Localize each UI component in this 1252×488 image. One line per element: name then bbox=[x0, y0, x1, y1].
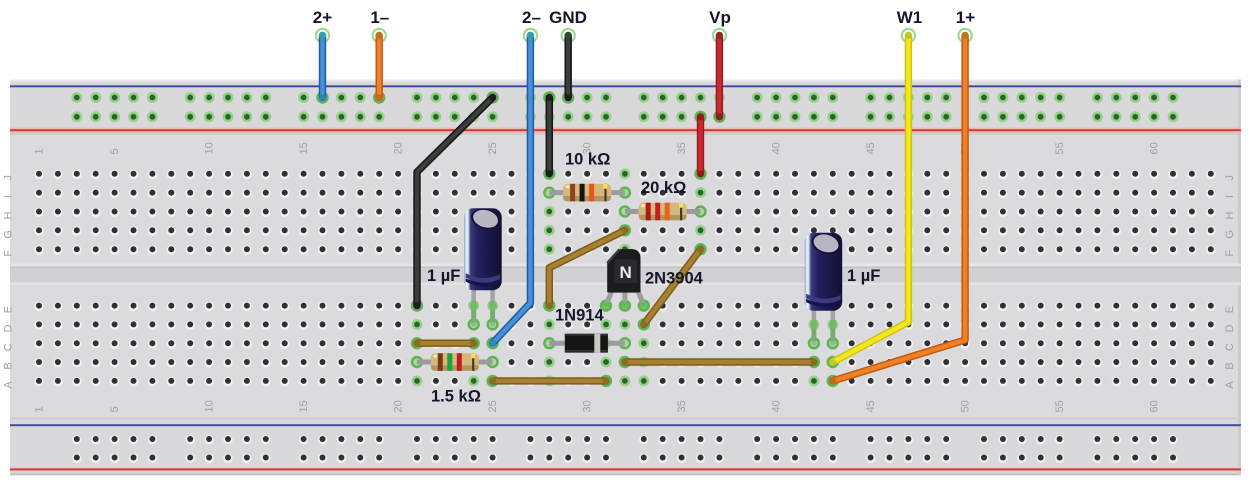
svg-text:5: 5 bbox=[109, 148, 121, 154]
jumper wire (GND rail to E21) bbox=[411, 91, 499, 311]
svg-text:20 kΩ: 20 kΩ bbox=[641, 179, 686, 197]
svg-text:E: E bbox=[1224, 306, 1236, 313]
svg-text:GND: GND bbox=[549, 8, 587, 27]
svg-text:D: D bbox=[3, 324, 15, 332]
svg-text:30: 30 bbox=[582, 400, 594, 412]
svg-text:J: J bbox=[1224, 175, 1236, 181]
wire 2+ bbox=[316, 29, 329, 104]
svg-text:1: 1 bbox=[34, 406, 46, 412]
svg-text:60: 60 bbox=[1149, 142, 1161, 154]
svg-text:D: D bbox=[1224, 324, 1236, 332]
diode 1N914 (C28-C32) bbox=[543, 334, 631, 353]
transistor Q 2N3904 (E31-E33) bbox=[600, 249, 650, 312]
svg-text:1+: 1+ bbox=[956, 8, 975, 27]
svg-text:B: B bbox=[1224, 362, 1236, 369]
wire 2- bbox=[486, 29, 537, 350]
svg-text:35: 35 bbox=[676, 400, 688, 412]
svg-text:I: I bbox=[3, 195, 15, 198]
svg-text:W1: W1 bbox=[897, 8, 923, 27]
svg-text:2–: 2– bbox=[522, 8, 541, 27]
svg-text:15: 15 bbox=[298, 400, 310, 412]
svg-text:E: E bbox=[3, 306, 15, 313]
resistor 10 k&#937; (I28-I32) bbox=[543, 184, 631, 202]
svg-text:25: 25 bbox=[487, 142, 499, 154]
svg-text:1–: 1– bbox=[370, 8, 389, 27]
jumper wire (C21 to C24) bbox=[411, 337, 480, 349]
svg-text:15: 15 bbox=[298, 142, 310, 154]
ground wire GND bbox=[562, 29, 575, 104]
wire 1- bbox=[373, 29, 386, 104]
resistor 1.5 k&#937; (B21-B25) bbox=[411, 353, 499, 371]
jumper wire (Vp rail to J36) bbox=[694, 111, 706, 180]
jumper wire (B32 to B42) bbox=[619, 356, 820, 368]
wire Vp (positive supply) bbox=[713, 29, 726, 123]
svg-text:2+: 2+ bbox=[313, 8, 332, 27]
resistor 20 k&#937; (H32-H36) bbox=[619, 203, 707, 221]
jumper wire (GND rail to J28) bbox=[543, 91, 555, 180]
svg-text:1.5 kΩ: 1.5 kΩ bbox=[431, 388, 481, 406]
wire W1 (waveform generator) bbox=[827, 29, 915, 368]
svg-text:F: F bbox=[1224, 250, 1236, 257]
svg-text:1N914: 1N914 bbox=[555, 307, 604, 325]
capacitor C 1 &#181;F (left, D24-D25) bbox=[464, 206, 502, 331]
svg-text:20: 20 bbox=[393, 142, 405, 154]
svg-text:40: 40 bbox=[771, 142, 783, 154]
capacitor C 1 &#181;F (right, C42-C43) bbox=[805, 230, 843, 349]
svg-text:C: C bbox=[1224, 343, 1236, 351]
svg-text:55: 55 bbox=[1054, 400, 1066, 412]
wire 1+ bbox=[827, 29, 972, 387]
svg-text:20: 20 bbox=[393, 400, 405, 412]
svg-text:G: G bbox=[1224, 230, 1236, 239]
svg-text:60: 60 bbox=[1149, 400, 1161, 412]
svg-text:H: H bbox=[1224, 211, 1236, 219]
svg-text:B: B bbox=[3, 362, 15, 369]
svg-text:H: H bbox=[3, 211, 15, 219]
svg-text:10: 10 bbox=[204, 142, 216, 154]
svg-text:J: J bbox=[3, 175, 15, 181]
svg-text:40: 40 bbox=[771, 400, 783, 412]
svg-text:A: A bbox=[3, 381, 15, 389]
jumper wire (F36 to D33) bbox=[638, 243, 707, 331]
svg-text:N: N bbox=[620, 263, 632, 282]
svg-text:2N3904: 2N3904 bbox=[645, 270, 704, 288]
svg-text:A: A bbox=[1224, 381, 1236, 389]
svg-text:45: 45 bbox=[865, 142, 877, 154]
svg-text:F: F bbox=[3, 250, 15, 257]
svg-text:C: C bbox=[3, 343, 15, 351]
svg-text:G: G bbox=[3, 230, 15, 239]
svg-text:10: 10 bbox=[204, 400, 216, 412]
svg-text:50: 50 bbox=[960, 400, 972, 412]
svg-text:25: 25 bbox=[487, 400, 499, 412]
svg-text:Vp: Vp bbox=[709, 8, 731, 27]
svg-text:I: I bbox=[1224, 195, 1236, 198]
svg-text:1 µF: 1 µF bbox=[847, 267, 880, 285]
svg-text:1: 1 bbox=[34, 148, 46, 154]
svg-text:5: 5 bbox=[109, 406, 121, 412]
svg-text:45: 45 bbox=[865, 400, 877, 412]
svg-text:35: 35 bbox=[676, 142, 688, 154]
jumper wire (A25 to A31) bbox=[486, 375, 612, 387]
svg-text:10 kΩ: 10 kΩ bbox=[565, 151, 610, 169]
svg-text:55: 55 bbox=[1054, 142, 1066, 154]
svg-text:1 µF: 1 µF bbox=[427, 267, 460, 285]
jumper wire (G32 to E28) bbox=[543, 224, 631, 312]
